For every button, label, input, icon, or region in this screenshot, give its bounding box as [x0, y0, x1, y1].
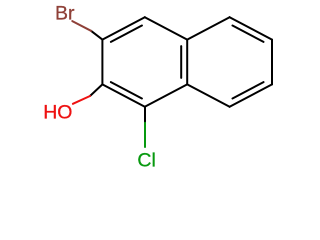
svg-text:HO: HO [43, 102, 72, 124]
bond to Cl black half [144, 107, 146, 123]
wire: inner double line B-Pbot [111, 82, 142, 98]
wire: ring bond A-B left edge [101, 40, 103, 85]
bond to Br maroon half [72, 21, 91, 31]
wire: ring bond Qtop-Qur [230, 17, 272, 39]
svg-text:Cl: Cl [137, 150, 155, 172]
wire: ring bond Pur-Plr shared edge [186, 40, 188, 85]
bond to O red half [73, 96, 90, 104]
wire: ring bond A-T [102, 17, 144, 39]
wire: ring bond Pur-Qtop [187, 17, 229, 39]
wire: ring bond T-Pur [145, 17, 187, 39]
bond to Cl green half [144, 123, 146, 147]
wire: ring bond Qbot-Plr [187, 84, 229, 106]
wire: ring bond B-Pbot [102, 84, 144, 106]
wire: inner double line Qtop-Qur [233, 26, 264, 42]
wire: ring bond Qlr-Qbot [230, 84, 272, 106]
wire: ring bond Qur-Qlr right edge [271, 40, 273, 85]
wire: ring bond Pbot-Plr [145, 84, 187, 106]
wire: inner double line Qlr-Qbot [233, 82, 264, 98]
wire: inner double line A-T [111, 26, 142, 42]
wire: inner double line Pur-Plr [180, 46, 182, 78]
svg-text:Br: Br [55, 2, 75, 24]
molecule: 3-bromo-1-chloronaphthalen-2-ol skeletal structure [0, 0, 300, 176]
bond to O black half [90, 84, 102, 96]
bond to Br black half [91, 31, 102, 40]
